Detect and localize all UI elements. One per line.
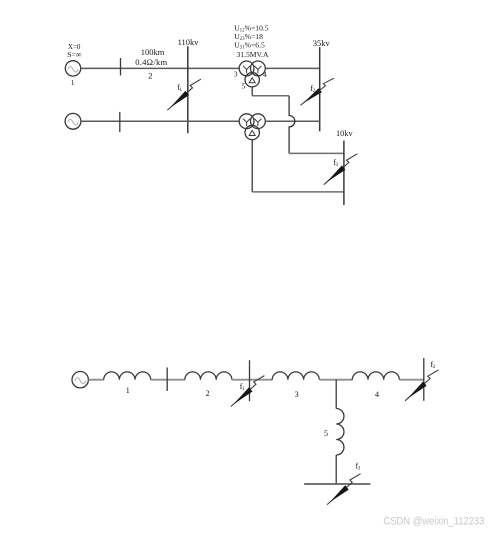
- svg-text:3: 3: [295, 390, 299, 399]
- generator G1 circle: [65, 61, 80, 76]
- wire junction down to coil 5: [335, 380, 337, 409]
- T2 primary wye symbol: [243, 119, 250, 127]
- reactance coil 3: [272, 372, 319, 380]
- svg-text:1: 1: [71, 78, 75, 87]
- transformer T2 winding tertiary circle: [245, 125, 259, 139]
- svg-text:0.4Ω/km: 0.4Ω/km: [135, 57, 167, 67]
- transformer T1 winding 4 (secondary circle): [251, 61, 266, 76]
- svg-text:1: 1: [126, 386, 130, 395]
- 10kV bus vertical line: [343, 141, 345, 205]
- svg-text:f1: f1: [240, 382, 245, 392]
- wire G1 to T1: [81, 67, 240, 69]
- bus tick on line 2: [120, 58, 122, 75]
- svg-text:f3: f3: [333, 158, 338, 168]
- wire T1 tertiary horizontal run: [252, 95, 289, 97]
- 35kV bus vertical line: [319, 47, 321, 131]
- svg-text:110kv: 110kv: [178, 37, 200, 47]
- wire coil5 down to f3 bus: [335, 455, 337, 484]
- generator G2 circle: [65, 113, 81, 129]
- T1 primary wye symbol: [243, 66, 250, 74]
- reactance coil 4: [352, 372, 399, 380]
- T1 tertiary delta symbol: [249, 78, 255, 83]
- svg-text:f1: f1: [177, 83, 182, 93]
- svg-text:f2: f2: [310, 84, 315, 94]
- svg-text:2: 2: [206, 389, 210, 398]
- equivalent generator circle: [72, 372, 88, 388]
- fault bolt f2 (bottom diagram): [405, 370, 439, 401]
- transformer T2 winding primary circle: [239, 114, 254, 129]
- wire T2 tertiary down-lead: [251, 140, 253, 192]
- svg-text:CSDN @weixin_112233: CSDN @weixin_112233: [383, 516, 484, 528]
- svg-text:2: 2: [148, 70, 152, 80]
- svg-text:4: 4: [375, 390, 379, 399]
- svg-text:10kv: 10kv: [336, 129, 353, 138]
- svg-text:5: 5: [242, 83, 246, 91]
- f3 fault bus horizontal: [304, 483, 370, 485]
- fault bolt f3 on 10kV bus: [324, 154, 358, 185]
- reactance coil 1: [104, 372, 151, 380]
- T2 tertiary delta symbol: [249, 131, 255, 136]
- fault bolt f3 (bottom diagram): [327, 474, 361, 505]
- wire coil2 to coil3: [232, 379, 272, 381]
- wire T2 tertiary horizontal run to 10kV bus: [252, 191, 344, 193]
- equivalent generator sine wave: [75, 378, 86, 384]
- bus tick between coil1 and coil2: [166, 368, 168, 392]
- reactance coil 2: [185, 372, 232, 380]
- svg-text:f2: f2: [431, 360, 436, 370]
- svg-text:f3: f3: [356, 461, 361, 471]
- wire T1 tertiary down-lead: [251, 87, 253, 96]
- svg-text:S=∞: S=∞: [67, 50, 82, 59]
- svg-text:100km: 100km: [141, 47, 165, 57]
- 110kV bus vertical line: [187, 46, 189, 133]
- svg-text:31.5MV.A: 31.5MV.A: [237, 50, 269, 59]
- wire coil4 to f2 bus: [400, 379, 424, 381]
- wire G2 to T2: [81, 120, 239, 122]
- wire coil1 to coil2: [151, 379, 185, 381]
- reactance coil 5 (vertical): [336, 409, 344, 456]
- transformer T1 winding 5 (tertiary circle): [245, 73, 259, 87]
- svg-text:4: 4: [263, 71, 267, 79]
- generator G1 sine wave: [68, 67, 78, 73]
- wire horizontal run to 10kV bus: [289, 152, 344, 154]
- bus tick on G2 line: [119, 112, 121, 132]
- wire T1 to 35kV bus: [265, 67, 319, 69]
- f1 fault bus vertical: [249, 360, 251, 401]
- f2 fault bus vertical: [423, 358, 425, 401]
- fault bolt f1 on 110kV line: [167, 79, 201, 110]
- wire coil3 to coil4 (node junction): [319, 379, 352, 381]
- svg-text:5: 5: [324, 429, 328, 438]
- T2 secondary wye symbol: [254, 119, 261, 127]
- svg-text:3: 3: [234, 70, 238, 78]
- T1 secondary wye symbol: [254, 66, 261, 74]
- transformer T1 winding 3 (primary circle): [239, 61, 254, 76]
- generator G2 sine wave: [68, 119, 79, 125]
- wire generator to reactance 1: [88, 379, 103, 381]
- wire T2 to 35kV bus: [265, 120, 319, 122]
- fault bolt f1 (bottom diagram): [231, 376, 265, 407]
- transformer T2 winding secondary circle: [251, 114, 266, 129]
- fault bolt f2 on 35kV bus: [300, 78, 334, 105]
- wire vertical drop with hop over T2 output: [289, 96, 295, 154]
- svg-text:35kv: 35kv: [313, 38, 331, 48]
